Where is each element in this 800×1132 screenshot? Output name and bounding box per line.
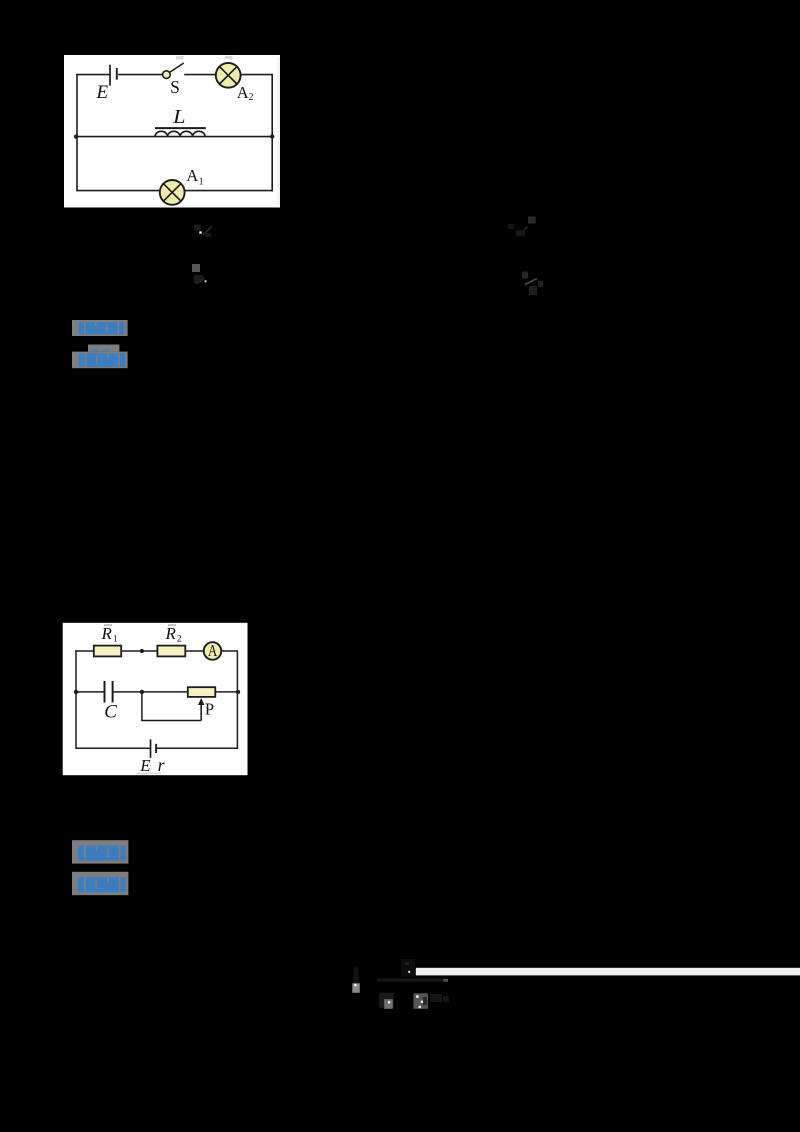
ammeter A [204,642,222,660]
wire: bottom segment left of lamp A1 [76,190,160,192]
battery E r plates [151,739,157,757]
lamp A2 [216,63,241,88]
equation residue: white highlight bar [416,968,800,976]
svg-text:r: r [158,755,166,775]
svg-text:S: S [170,77,180,97]
wire: left vertical of loop 1 [76,75,78,191]
svg-text:E: E [139,756,151,775]
wire: top segment battery side [76,74,109,76]
faint residue square 3 (right) [508,217,536,237]
faint residue cluster 4 (right lower) [522,272,543,296]
wire: switch to lamp A2 [184,74,216,76]
figure 2 white panel [63,623,248,775]
svg-text:A: A [237,83,249,102]
badge 1: answer link [72,320,128,336]
capacitor C plates [105,681,113,703]
equation residue: denominator left glyph [379,993,394,1009]
badge 2: analysis link [72,345,128,369]
svg-text:2: 2 [177,634,182,644]
lamp A1 [160,180,185,205]
wire: top segment battery to switch [118,74,162,76]
artifact gray tab above lamp A2 [225,56,233,59]
wire: left vertical of loop 2 [75,650,77,748]
wire: slider tap drop from mid node [142,692,201,721]
wire: potentiometer to right [215,691,238,693]
wire: R2 to ammeter [185,650,204,652]
resistor R2 [157,646,185,657]
wire: right vertical of loop 1 [271,74,273,192]
wire: battery to bottom right [157,747,238,749]
svg-text:R: R [165,624,177,643]
wire: lamp A2 to right corner [241,74,273,76]
wire: middle inductor branch [76,136,272,138]
svg-text:C: C [104,702,117,723]
node: middle-left junction [74,690,78,694]
resistor R1 [94,646,121,657]
equation residue: fraction bar [377,978,445,981]
node: junction left of inductor branch [74,134,78,138]
potentiometer P body [188,687,216,697]
badge 4: analysis link [72,872,128,895]
figure 1 white panel [64,55,280,208]
wire: middle branch left to capacitor [75,691,103,693]
equation residue: numerator cluster [401,959,415,977]
svg-text:1: 1 [113,634,118,644]
node: middle-center junction [140,690,144,694]
battery E plates [110,65,117,86]
potentiometer wiper arrow [198,698,204,705]
svg-text:1: 1 [199,177,204,188]
wire: capacitor to mid node [114,691,188,693]
node: middle-right junction [236,690,240,694]
svg-text:L: L [172,107,186,128]
artifact gray tab above switch [176,56,184,59]
svg-text:A: A [208,641,217,660]
faint residue gray square 2 [192,264,207,284]
artifact light strip under battery labels [136,773,161,775]
wire: right vertical of loop 2 [236,650,238,748]
faint residue cluster 1 (below figure 1) [194,225,212,238]
switch S lever [170,63,184,72]
switch S pivot circle [163,71,171,79]
equation residue: left symbol column [352,967,360,993]
equation residue: denominator right glyph [414,993,450,1009]
svg-text:P: P [205,700,214,719]
svg-text:E: E [96,82,109,103]
wire: ammeter to right corner [221,650,237,652]
svg-text:2: 2 [249,92,254,103]
badge 3: answer link [72,840,128,863]
node: top junction [140,649,144,653]
node: junction right of inductor branch [270,134,274,138]
figure 1 right-edge light strip [277,57,280,205]
wire: top left to R1 [75,650,94,652]
equation residue: fraction bar bright tip [443,979,448,982]
artifact macron over R1 [104,624,112,626]
inductor core bar [155,127,206,129]
wire: bottom segment right of lamp A1 [184,190,273,192]
wire: R1 to node [121,650,157,652]
inductor L coil [155,131,205,136]
svg-text:A: A [186,166,198,185]
artifact macron over R2 [168,624,176,626]
svg-text:R: R [101,624,113,643]
wire: bottom left to battery [75,747,149,749]
